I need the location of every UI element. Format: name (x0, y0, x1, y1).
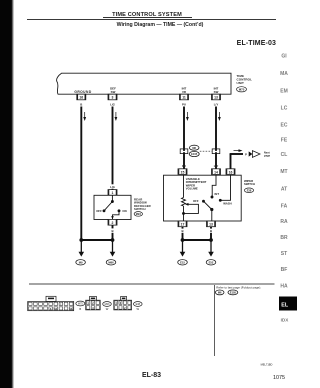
svg-text:3: 3 (112, 96, 114, 100)
connector ref E105 oval (189, 151, 199, 156)
svg-text:B: B (111, 229, 113, 233)
svg-text:MEL71BD: MEL71BD (261, 363, 273, 367)
time control unit U1 box (torn left edge) (57, 73, 231, 94)
svg-text:M23: M23 (136, 212, 142, 216)
svg-text:IDX: IDX (281, 317, 290, 322)
svg-text:INT: INT (215, 192, 220, 196)
wire W3 lower PU (183, 152, 185, 169)
wire W1 ground B (80, 107, 82, 241)
junction dot right B (209, 238, 213, 242)
pin 13 box (212, 94, 221, 100)
ground terminal M66 (106, 240, 116, 265)
svg-text:AT: AT (281, 187, 287, 193)
svg-text:BF: BF (281, 267, 288, 273)
connector ref M23 oval (defogger) (134, 212, 142, 217)
svg-text:Wiring Diagram — TIME — (Cont’: Wiring Diagram — TIME — (Cont’d) (117, 22, 204, 28)
svg-text:2: 2 (112, 221, 114, 225)
svg-text:CL: CL (281, 152, 288, 158)
next page caption (264, 150, 271, 157)
svg-text:SWITCH: SWITCH (244, 182, 255, 186)
svg-text:16: 16 (229, 170, 233, 174)
svg-text:RA: RA (280, 219, 288, 225)
wiper switch box (164, 175, 242, 221)
svg-text:B: B (80, 102, 82, 106)
svg-text:EL-83: EL-83 (142, 372, 161, 379)
wire color label L/G (above defogger) (109, 184, 115, 189)
svg-text:SW: SW (214, 90, 219, 94)
svg-text:VOLUME: VOLUME (186, 187, 198, 191)
flow arrow on W1 (83, 112, 86, 121)
ground bus left (81, 239, 112, 241)
junction dot left B (111, 238, 115, 242)
svg-text:B: B (79, 307, 81, 311)
svg-text:GROUND: GROUND (74, 90, 92, 94)
svg-text:BR: BR (280, 235, 288, 241)
svg-text:E15: E15 (180, 261, 185, 265)
svg-text:FE: FE (281, 138, 288, 144)
pin name INT VR (182, 87, 187, 94)
vertical divider line (214, 285, 216, 356)
svg-text:16: 16 (79, 96, 83, 100)
svg-text:17: 17 (181, 223, 185, 227)
svg-text:OFF: OFF (96, 209, 102, 213)
connector E38 detail (8 pin) (114, 297, 132, 310)
svg-text:M23: M23 (105, 303, 110, 306)
wire wiper pin13 to ground bus (210, 227, 212, 240)
svg-text:L/G: L/G (110, 185, 116, 189)
wire color label B (wiper pin13 ground) (209, 229, 213, 234)
flow arrow on next page wire (234, 149, 243, 152)
wire defogger to ground bus (112, 225, 114, 240)
flow arrow on W4 (218, 112, 221, 121)
svg-text:LC: LC (281, 106, 288, 112)
svg-text:page: page (264, 155, 271, 158)
svg-text:M75: M75 (239, 88, 245, 92)
variable resistor VR (pot) (182, 175, 199, 221)
svg-text:L/Y: L/Y (214, 164, 219, 168)
svg-text:WASH: WASH (223, 202, 231, 206)
svg-text:E38: E38 (247, 189, 252, 193)
svg-text:E38: E38 (136, 303, 141, 306)
pin name INT SW (214, 87, 219, 94)
pin 16 box (77, 94, 86, 100)
svg-text:B: B (181, 229, 183, 233)
svg-text:E105: E105 (230, 291, 237, 295)
svg-text:EM: EM (280, 89, 288, 95)
svg-text:GI: GI (281, 54, 287, 60)
svg-text:HA: HA (280, 283, 288, 289)
svg-text:M66: M66 (108, 261, 114, 265)
dashed link to W4 connector (200, 150, 212, 152)
wiper switch lever (204, 201, 212, 209)
pot wiper arrowhead (185, 203, 189, 206)
right margin section labels (280, 54, 288, 290)
svg-text:PU: PU (182, 102, 186, 106)
svg-text:EL-TIME-03: EL-TIME-03 (237, 40, 276, 47)
svg-text:15: 15 (181, 170, 185, 174)
svg-text:P: P (245, 152, 247, 156)
svg-text:ST: ST (281, 251, 287, 257)
defogger switch internals (104, 195, 119, 219)
connector ref M6 oval (189, 145, 199, 150)
svg-text:ON: ON (122, 209, 126, 213)
svg-text:SW: SW (111, 90, 116, 94)
rear window defogger switch pin 1 box (108, 190, 117, 196)
connector ref E38 oval (wiper switch) (244, 188, 253, 193)
pot junction dot (182, 212, 185, 215)
contact dots OFF INT WASH pivot (202, 196, 222, 212)
wiper switch WASH wire (222, 175, 231, 200)
header title TIME CONTROL SYSTEM (103, 12, 192, 18)
flow arrow on W2 (115, 112, 118, 121)
junction dot left A (79, 238, 83, 242)
ground terminal M9 (76, 240, 86, 265)
wire W2 L/G to defogger switch (112, 107, 114, 190)
svg-text:EL: EL (281, 302, 289, 308)
rear window defogger switch box (94, 195, 131, 219)
svg-text:MA: MA (280, 71, 288, 77)
foldout note box (215, 286, 261, 296)
svg-text:L/G: L/G (110, 102, 116, 106)
svg-text:13: 13 (209, 223, 213, 227)
svg-text:W: W (137, 307, 140, 311)
wire wiper pin17 to ground bus (182, 227, 184, 240)
margin label EL highlighted box (279, 297, 297, 311)
header full-width rule (27, 18, 276, 20)
rear window defogger switch caption (134, 198, 151, 212)
bottom separator rule (29, 283, 275, 285)
connector M75 detail (16 pin) (28, 296, 74, 310)
time control unit label (237, 74, 253, 85)
svg-text:M6: M6 (218, 291, 222, 295)
svg-text:1075: 1075 (273, 375, 285, 381)
wiper switch caption VARIABLE INTERMITTENT WIPER VOLUME (186, 177, 207, 191)
defogger switch pin 2 box (108, 219, 117, 225)
connector ref M75 oval (unit) (237, 87, 247, 92)
svg-text:M6: M6 (192, 146, 196, 150)
wiper switch pin 16 box (226, 169, 235, 175)
svg-text:E52: E52 (209, 261, 214, 265)
wiper switch pin 14 box (212, 169, 221, 175)
svg-text:14: 14 (214, 170, 218, 174)
pin name DEF SW (110, 87, 116, 94)
wire color label B (defogger ground) (111, 228, 115, 233)
next page wire P (230, 154, 243, 169)
svg-text:1: 1 (112, 191, 114, 195)
wire W3 PU upper (183, 107, 185, 151)
wire W4 lower L/Y (215, 152, 217, 169)
junction dot right A (181, 238, 185, 242)
svg-text:W: W (106, 307, 109, 311)
svg-text:M75: M75 (78, 303, 83, 306)
svg-text:Refer to last page (Foldout pa: Refer to last page (Foldout page). (216, 286, 261, 290)
inline connector box on W3 (180, 149, 188, 154)
wiper switch pin 13 box (207, 221, 216, 227)
wire color label B (wiper pin17 ground) (181, 229, 185, 234)
svg-text:UNIT: UNIT (237, 81, 244, 85)
connector ref M75 oval (strip) (76, 301, 85, 311)
svg-text:L/Y: L/Y (214, 102, 219, 106)
svg-text:B: B (210, 229, 212, 233)
connector ref E38 oval (strip) (134, 302, 143, 311)
wiper switch pole wire (211, 210, 213, 222)
pin 11 box (180, 94, 189, 100)
flow arrow on W3 (186, 112, 189, 121)
ground bus right (183, 239, 212, 241)
svg-text:M9: M9 (79, 261, 83, 265)
defogger contact dots (103, 200, 121, 219)
next page arrow symbol (249, 151, 260, 158)
page gutter black bar (0, 0, 12, 388)
wiper switch INT wire (212, 175, 216, 196)
wire W4 L/Y upper (215, 107, 217, 151)
svg-text:PU: PU (182, 164, 186, 168)
svg-text:SWITCH: SWITCH (134, 207, 146, 211)
ground terminal E52 (206, 240, 216, 265)
svg-text:11: 11 (182, 96, 186, 100)
wiper switch pin 17 box (178, 221, 187, 227)
svg-text:13: 13 (214, 96, 218, 100)
wiper switch pin 15 box (178, 169, 187, 175)
ground terminal E15 (178, 240, 188, 265)
svg-text:FA: FA (281, 204, 288, 210)
svg-text:OFF: OFF (193, 199, 199, 203)
svg-text:E105: E105 (191, 152, 198, 156)
connector ref M23 oval (strip) (103, 302, 112, 311)
connector M23 detail (6 pin) (86, 297, 101, 310)
svg-text:EC: EC (281, 123, 288, 129)
inline connector box on W4 (212, 149, 220, 154)
pin 3 box (108, 94, 117, 100)
svg-text:MT: MT (280, 169, 287, 175)
wiper switch caption (244, 179, 255, 186)
